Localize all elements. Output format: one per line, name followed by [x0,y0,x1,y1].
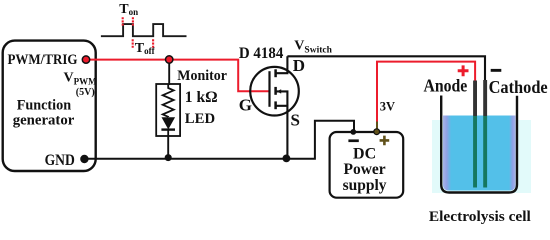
label Toff [135,41,156,56]
label Anode [424,76,468,96]
resistor R1 1 kOhm [163,84,174,117]
terminal DC minus [348,129,358,142]
Ton dashed markers [123,17,133,25]
svg-text:PWM/TRIG: PWM/TRIG [8,52,78,68]
transistor Q1 gate bar [268,71,270,107]
svg-text:D: D [293,56,305,75]
monitor module box [156,84,180,136]
label D 4184 [239,45,284,62]
svg-text:D 4184: D 4184 [239,45,284,62]
transistor Q1 drain lead [277,56,288,73]
svg-text:VPWM: VPWM [64,71,98,87]
svg-text:VSwitch: VSwitch [294,38,332,55]
node junction source-ground [283,155,291,163]
transistor Q1 body lead with arrow [277,89,288,106]
label Electrolysis cell [429,209,531,225]
wire: junction to monitor module [168,60,170,85]
electrode cathode bar [483,80,487,188]
terminal GND [80,155,88,163]
label VSwitch [294,38,332,55]
cathode minus mark [491,69,502,72]
terminal PWM/TRIG [82,56,89,63]
svg-text:3V: 3V [380,99,395,113]
node junction module-ground [165,154,172,161]
label LED [185,111,215,127]
transistor Q1 MOSFET D4184 body circle [250,67,299,116]
DC power supply box PS1 [330,132,404,198]
wire: PWM red net [86,60,269,92]
svg-text:Cathode: Cathode [489,77,548,97]
label Monitor [177,68,227,84]
svg-text:Electrolysis cell: Electrolysis cell [429,209,531,225]
svg-text:S: S [291,111,300,130]
wire: ground bus [84,158,286,160]
svg-text:G: G [239,96,252,115]
wire: module bottom to ground bus [167,136,169,159]
Toff dashed markers [133,39,153,48]
label 1 kOhm [185,89,218,106]
electrolysis cell background haze [432,120,531,193]
electrode anode bar [473,81,477,188]
svg-text:GND: GND [45,152,75,169]
svg-text:Ton: Ton [119,2,138,17]
svg-text:Function: Function [17,97,72,113]
LED D1 [161,118,175,136]
glass shade right [509,116,516,192]
wire: source to DC minus [286,121,354,159]
label pin S [291,111,300,130]
svg-text:Anode: Anode [424,76,468,96]
svg-text:generator: generator [13,112,75,128]
svg-text:(5V): (5V) [76,87,95,98]
anode plus mark [458,65,469,76]
label Ton [119,2,138,17]
wire: DC+ to anode (red) [377,62,475,128]
svg-text:1 kΩ: 1 kΩ [185,89,218,106]
timing diagram waveform [101,24,187,36]
terminal DC plus [374,129,389,145]
label pin D [293,56,305,75]
label Cathode [489,77,548,97]
transistor Q1 source lead [277,106,288,159]
electrolyte liquid [443,116,516,191]
wire: drain to cathode (VSwitch net) [287,56,485,81]
wire: DC+ olive stub [376,122,378,131]
svg-text:LED: LED [185,111,215,127]
node junction on PWM net [166,56,173,63]
glass shade left [443,116,451,192]
svg-text:DC: DC [353,145,376,162]
beaker outline [441,96,517,193]
label 3V [380,99,395,113]
transistor Q1 channel bars [274,69,277,109]
svg-text:Power: Power [344,161,386,178]
svg-text:Monitor: Monitor [177,68,227,84]
svg-text:supply: supply [343,177,387,194]
label pin G [239,96,252,115]
function generator box U1 [3,41,97,171]
